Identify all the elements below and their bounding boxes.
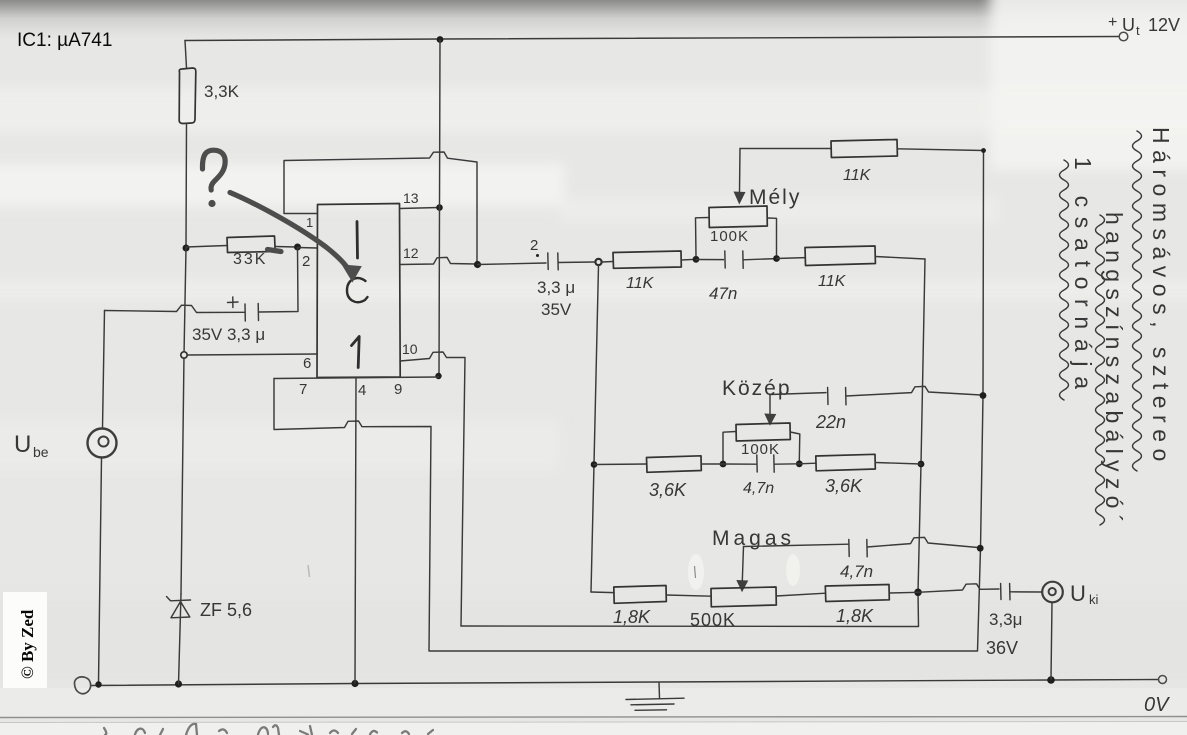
resistor R8 1,8K [614, 586, 667, 604]
terminal 0V right [1159, 676, 1167, 684]
node ring pin6 [181, 352, 187, 358]
svg-text:3,3 μ: 3,3 μ [537, 278, 575, 297]
svg-text:3,3μ: 3,3μ [989, 610, 1022, 629]
pin 7 4 9 line [274, 377, 439, 379]
svg-text:12V: 12V [1148, 15, 1180, 35]
pot P1 right arm [767, 218, 776, 255]
wire kozep line left [594, 463, 647, 466]
capacitor C4 22n plates [828, 388, 846, 405]
arrow to IC [230, 193, 350, 272]
svg-text:Közép: Közép [722, 377, 792, 400]
IC letter I [356, 222, 359, 259]
wiper arm from top 11K [739, 149, 742, 193]
svg-text:be: be [33, 444, 49, 460]
capacitor C1 3,3u 35V plates [257, 304, 259, 321]
wire top 11K right to column [897, 149, 983, 151]
svg-text:Mély: Mély [749, 186, 801, 209]
wire 22n right with hop [846, 386, 981, 396]
wire 3,6K to right column [875, 463, 921, 465]
node kozep right [918, 461, 925, 468]
svg-text:U: U [1070, 581, 1086, 606]
svg-text:U: U [1122, 15, 1135, 35]
node pot-right mely [773, 255, 780, 262]
svg-text:10: 10 [402, 341, 418, 357]
gray dash [268, 250, 282, 252]
svg-text:500K: 500K [690, 610, 736, 630]
resistor R2 33K [227, 236, 275, 253]
svg-text:ki: ki [1089, 592, 1099, 607]
wire output with hop [918, 584, 999, 593]
svg-text:t: t [1136, 23, 1140, 38]
bottom cut-off handwriting [104, 724, 433, 735]
wire 33K to pin2 node [275, 246, 296, 249]
svg-text:1,8K: 1,8K [613, 607, 651, 627]
svg-text:11K: 11K [843, 167, 872, 184]
svg-text:U: U [14, 431, 31, 458]
wire 22n arm [770, 393, 826, 395]
wire to cap [701, 463, 756, 465]
svg-text:0V: 0V [1144, 694, 1170, 716]
resistor R7 3,6K [816, 454, 876, 471]
potentiometer P3 500K [711, 587, 776, 607]
capacitor C2 3,3u 35V plates [547, 253, 549, 270]
whiteout ghosts [688, 554, 704, 590]
svg-text:ZF 5,6: ZF 5,6 [200, 600, 252, 620]
svg-text:3,3K: 3,3K [204, 82, 240, 101]
wire left rail to 33K node [185, 124, 188, 249]
wire cap to ring node [558, 261, 594, 264]
svg-text:IC1: µA741: IC1: µA741 [17, 30, 112, 51]
resistor R4 11K [805, 246, 875, 266]
pin 7 loop wire down right and up to right column [274, 151, 984, 652]
pot P1 left arm [696, 218, 710, 257]
wire 1,8K to pot [666, 595, 711, 596]
wire right feedback column [461, 259, 925, 627]
wiper arrow magas [742, 547, 743, 582]
wire left rail of network [591, 266, 599, 593]
node junction left/33K [183, 245, 190, 252]
pin 10 stub with hop then down [400, 352, 465, 626]
svg-text:35V: 35V [541, 300, 572, 319]
svg-text:© By Zed: © By Zed [18, 609, 37, 679]
svg-text:1: 1 [306, 215, 313, 230]
By Zed white sticker [3, 592, 47, 688]
svg-text:11K: 11K [818, 273, 847, 290]
wire to 33K [186, 246, 227, 248]
wire cap to Uki [1010, 591, 1042, 593]
capacitor C3 47n plates [696, 251, 776, 268]
zener diode ZF5,6 [167, 597, 191, 601]
wire Uki to 0V [1051, 603, 1052, 680]
resistor R3 11K [613, 251, 681, 268]
wire pin12 node to input cap [478, 263, 547, 265]
resistor R9 1,8K [825, 585, 889, 602]
wire 4,7n right with hop [867, 537, 978, 547]
svg-text:4,7n: 4,7n [840, 562, 873, 581]
wavy underline 3 [1060, 160, 1069, 400]
terminal bottom-left [74, 677, 90, 694]
svg-text:+: + [1108, 14, 1117, 31]
wire cap to Ube line with hop over left rail [105, 305, 245, 312]
capacitor C5 4,7n plates [757, 455, 774, 472]
svg-text:22n: 22n [815, 412, 846, 432]
pin 12 stub with hop [400, 257, 476, 264]
op-amp IC1 body [317, 204, 400, 378]
svg-text:3,6K: 3,6K [825, 476, 863, 496]
capacitor C7 3,3u out plates [1001, 584, 1010, 600]
wire cap to 3,6K right [774, 463, 816, 464]
wavy underline 1 [1133, 131, 1142, 471]
wire left rail middle [181, 248, 186, 594]
capacitor C6 4,7n magas plates [849, 540, 867, 557]
IC letter C [347, 278, 368, 302]
svg-text:7: 7 [299, 381, 307, 398]
wiper arrow kozep [769, 395, 771, 415]
svg-text:2: 2 [302, 253, 310, 270]
node junctions bottom rail [95, 681, 101, 687]
svg-text:Háromsávos, sztereo: Háromsávos, sztereo [1148, 127, 1174, 468]
node junction top rail [437, 36, 444, 43]
wire 11K to right column [875, 257, 925, 260]
plus sign [228, 297, 239, 308]
wire top +12V rail [185, 37, 1119, 41]
svg-text:47n: 47n [709, 284, 737, 303]
ground symbol [658, 683, 661, 699]
node ring mely-left [595, 259, 601, 265]
wire to 11K [602, 261, 613, 264]
wire left rail top [185, 41, 187, 69]
svg-text:36V: 36V [986, 638, 1018, 658]
resistor R5 11K top [831, 140, 897, 158]
svg-text:13: 13 [403, 190, 419, 206]
resistor R1 3,3K vertical [179, 68, 196, 124]
pin 1 wire to top box [284, 152, 477, 263]
resistor R6 3,6K [647, 456, 702, 473]
potentiometer P2 100K Kozep [736, 423, 790, 441]
svg-text:4: 4 [358, 382, 366, 399]
wire Ube down to 0V rail [99, 458, 102, 684]
node pin2 [294, 244, 301, 251]
svg-text:12: 12 [403, 245, 419, 261]
wire to 11K right [777, 257, 806, 260]
svg-text:9: 9 [394, 381, 402, 398]
wire 0V bottom rail [91, 680, 1159, 686]
connector Uki [1042, 582, 1063, 603]
svg-text:11K: 11K [626, 275, 655, 292]
wire magas line left [591, 591, 614, 594]
svg-text:1 csatornája: 1 csatornája [1070, 157, 1096, 399]
svg-text:2: 2 [530, 237, 538, 254]
pot P2 left arm [723, 432, 736, 462]
wire 11K to pot-left node [681, 258, 695, 261]
question mark [202, 150, 225, 190]
wire top 11K left [740, 148, 831, 150]
wire 4,7n magas arm [744, 544, 849, 546]
wire pot to 1,8K right [776, 593, 825, 596]
wire pin6 [187, 354, 317, 355]
svg-text:35V 3,3 μ: 35V 3,3 μ [192, 325, 265, 344]
wire pin2 stub [298, 247, 318, 250]
wire pin4 rail down [355, 379, 356, 684]
node magas right [914, 589, 922, 597]
connector Ube [88, 429, 117, 458]
svg-text:33K: 33K [233, 251, 267, 268]
wire pin2 node down to cap [259, 248, 298, 313]
wire 1,8K to output node [889, 591, 918, 594]
wavy underline 2 [1096, 215, 1105, 525]
wire Ube up line [103, 311, 105, 429]
svg-text:100K: 100K [710, 228, 749, 245]
IC digit 1 [352, 337, 360, 368]
terminal +Ut 12V [1119, 32, 1128, 41]
svg-text:6: 6 [303, 355, 311, 372]
pin 13 stub [400, 208, 439, 209]
svg-text:1,8K: 1,8K [836, 606, 874, 626]
svg-text:4,7n: 4,7n [743, 480, 774, 497]
potentiometer P1 100K Mely [709, 206, 767, 228]
svg-text:3,6K: 3,6K [649, 480, 687, 500]
pot P2 right arm [790, 432, 800, 461]
wire +12V vertical x440 [439, 40, 440, 376]
